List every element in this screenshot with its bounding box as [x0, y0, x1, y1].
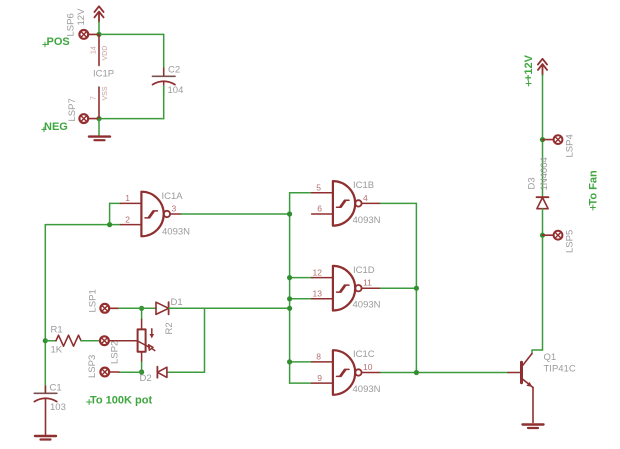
svg-text:Q1: Q1 [544, 352, 557, 363]
wire R2 bottom [141, 362, 143, 372]
diode D1 [156, 302, 169, 314]
node junction IC1A inputs [107, 222, 112, 227]
capacitor C1 [34, 393, 57, 401]
op-amp power IC1P pin VDD [98, 34, 100, 65]
pad LSP2 [100, 336, 109, 345]
wire [45, 340, 56, 342]
capacitor C2 [153, 76, 176, 84]
svg-text:LSP1: LSP1 [87, 289, 98, 312]
svg-text:IC1A: IC1A [162, 191, 184, 202]
wire [119, 371, 142, 373]
svg-text:12V: 12V [76, 8, 87, 26]
op-amp U IC1B pins 5,6 [312, 193, 333, 214]
wire to pin 12 [290, 277, 312, 279]
wire left vertical to R1/C1 [44, 225, 46, 394]
ground [89, 137, 110, 141]
wire to pin 9 [290, 382, 312, 384]
transistor Q1 emitter lead [532, 388, 534, 423]
svg-text:LSP7: LSP7 [67, 98, 78, 121]
node junction LSP4 [540, 137, 545, 142]
pad LSP6 [79, 30, 99, 39]
wire [163, 34, 165, 76]
transistor Q1 base bar [520, 362, 523, 383]
wire from diode network [205, 307, 290, 309]
svg-text:2: 2 [125, 214, 130, 224]
node junctions on input bus [287, 211, 292, 364]
wire [98, 22, 100, 34]
svg-text:4: 4 [363, 193, 368, 203]
svg-text:R2: R2 [164, 322, 175, 334]
svg-text:1K: 1K [51, 345, 63, 356]
svg-text:IC1D: IC1D [353, 265, 375, 276]
op-amp U2 IC1B body [333, 181, 355, 226]
op-amp power IC1P pin VSS [98, 87, 100, 119]
op-amp IC1C output pin 10 [362, 372, 381, 374]
svg-text:103: 103 [50, 402, 66, 413]
wire [81, 340, 100, 342]
svg-text:1N4004: 1N4004 [539, 157, 550, 190]
wire IC1D output [381, 287, 417, 289]
svg-text:10: 10 [363, 362, 373, 372]
svg-text:4093N: 4093N [353, 215, 381, 226]
wire R2 top [141, 308, 143, 319]
wire to pin 5 [290, 192, 312, 194]
svg-text:VSS: VSS [102, 86, 109, 100]
svg-text:7: 7 [91, 96, 98, 100]
svg-text:TIP41C: TIP41C [544, 364, 576, 375]
op-amp U1 IC1A body [141, 192, 163, 237]
wire [99, 33, 164, 35]
wire input bus vertical [289, 193, 291, 383]
svg-text:POS: POS [47, 36, 70, 48]
node junction LSP5 [540, 233, 545, 238]
op-amp U IC1C pins 8,9 [312, 362, 333, 383]
svg-text:LSP6: LSP6 [66, 13, 77, 36]
svg-text:3: 3 [172, 204, 177, 214]
transistor Q1 collector [522, 354, 532, 367]
node POS junction [96, 32, 101, 37]
op-amp U IC1D pins 12,13 [312, 278, 333, 299]
potentiometer R2 adjust arrow [150, 329, 155, 339]
wire collector jog [532, 350, 543, 354]
wire [163, 86, 165, 119]
node junction R1 [43, 338, 48, 343]
node junctions on output bus [414, 286, 419, 376]
wire to pin 8 [290, 361, 312, 363]
op-amp U3 IC1D body [333, 266, 355, 311]
svg-text:LSP5: LSP5 [564, 230, 575, 253]
wire output bus vertical [415, 203, 417, 372]
pad LSP3 [100, 368, 119, 377]
svg-text:8: 8 [316, 352, 321, 362]
node NEG junction [96, 116, 101, 121]
svg-text:C1: C1 [50, 383, 62, 394]
supply +12V symbol top-left [94, 6, 103, 22]
capacitor C1 bottom lead [45, 399, 47, 435]
svg-text:13: 13 [313, 289, 323, 299]
transistor Q1 emitter [522, 379, 533, 388]
svg-text:D3: D3 [527, 177, 538, 189]
svg-text:1: 1 [125, 193, 130, 203]
op-amp IC1A output pin 3 [170, 213, 181, 215]
wire IC1B output [381, 202, 417, 204]
svg-text:4093N: 4093N [353, 300, 381, 311]
svg-text:LSP2: LSP2 [110, 341, 121, 364]
pad LSP1 [100, 304, 119, 313]
svg-text:NEG: NEG [44, 121, 68, 133]
svg-text:+12V: +12V [523, 54, 535, 81]
svg-text:IC1B: IC1B [353, 180, 374, 191]
wire [119, 307, 156, 309]
svg-text:D2: D2 [140, 373, 152, 384]
svg-text:5: 5 [316, 183, 321, 193]
op-amp U IC1A pins 1,2 [120, 203, 141, 224]
svg-text:104: 104 [168, 85, 184, 96]
transistor Q1 emitter arrow [526, 382, 532, 387]
ground [35, 436, 56, 440]
svg-text:9: 9 [317, 373, 322, 383]
potentiometer R2 body [138, 329, 146, 351]
svg-text:6: 6 [317, 204, 322, 214]
svg-text:To Fan: To Fan [587, 170, 599, 206]
potentiometer R2 bottom pin [141, 352, 143, 362]
pad LSP7 [79, 114, 99, 123]
supply +12V symbol right [538, 59, 547, 75]
svg-text:14: 14 [91, 46, 98, 54]
potentiometer R2 wiper [109, 341, 155, 351]
wire [542, 209, 544, 350]
wire main +12V rail [542, 75, 544, 197]
node junction D2 [139, 369, 144, 374]
svg-text:IC1C: IC1C [353, 349, 375, 360]
ground [523, 425, 544, 429]
resistor R1 [56, 335, 81, 346]
op-amp U4 IC1C body [333, 350, 355, 395]
svg-text:IC1P: IC1P [93, 69, 114, 80]
svg-text:VDD: VDD [102, 46, 109, 61]
diode D3 [537, 197, 549, 209]
pad LSP4 [543, 135, 563, 144]
svg-text:C2: C2 [168, 64, 180, 75]
wire [167, 308, 205, 372]
wire to pin 13 [290, 298, 312, 300]
diode D2 [157, 367, 167, 378]
op-amp IC1D output pin 11 [362, 287, 381, 289]
svg-text:12: 12 [313, 267, 323, 277]
pad LSP5 [543, 231, 563, 240]
wire [99, 118, 164, 120]
op-amp IC1B output pin 4 [362, 202, 381, 204]
svg-text:LSP4: LSP4 [564, 134, 575, 157]
svg-text:4093N: 4093N [353, 384, 381, 395]
svg-text:D1: D1 [171, 297, 183, 308]
transistor Q1 base pin [508, 372, 520, 374]
svg-text:LSP3: LSP3 [87, 355, 98, 378]
wire IC1C output to Q1 base [381, 372, 509, 374]
svg-text:4093N: 4093N [162, 227, 190, 238]
wire [98, 119, 100, 135]
wire IC1A output to bus [181, 213, 290, 215]
svg-text:To 100K pot: To 100K pot [90, 394, 152, 406]
node junction D1 [139, 306, 144, 311]
svg-text:11: 11 [363, 278, 372, 288]
potentiometer R2 top pin [141, 320, 143, 330]
wire IC1A input loop [45, 203, 120, 224]
svg-text:R1: R1 [51, 325, 63, 336]
